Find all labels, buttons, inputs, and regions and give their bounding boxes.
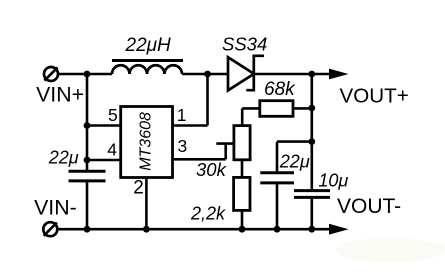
svg-text:5: 5 [108,105,118,125]
svg-text:2: 2 [133,178,144,199]
svg-text:VIN-: VIN- [34,196,77,220]
svg-text:3: 3 [178,136,188,156]
svg-text:VIN+: VIN+ [36,83,84,107]
svg-text:VOUT-: VOUT- [337,195,401,218]
svg-text:22μ: 22μ [279,152,310,172]
svg-text:VOUT+: VOUT+ [340,85,409,108]
svg-text:4: 4 [107,140,117,160]
svg-text:22μ: 22μ [48,148,79,168]
svg-text:10μ: 10μ [318,170,348,190]
svg-text:30k: 30k [196,159,228,180]
svg-text:68k: 68k [264,79,296,100]
svg-text:2,2k: 2,2k [190,203,226,223]
svg-text:SS34: SS34 [222,34,267,55]
svg-text:1: 1 [177,105,187,125]
svg-text:MT3608: MT3608 [138,112,155,171]
svg-text:22μH: 22μH [125,35,172,56]
